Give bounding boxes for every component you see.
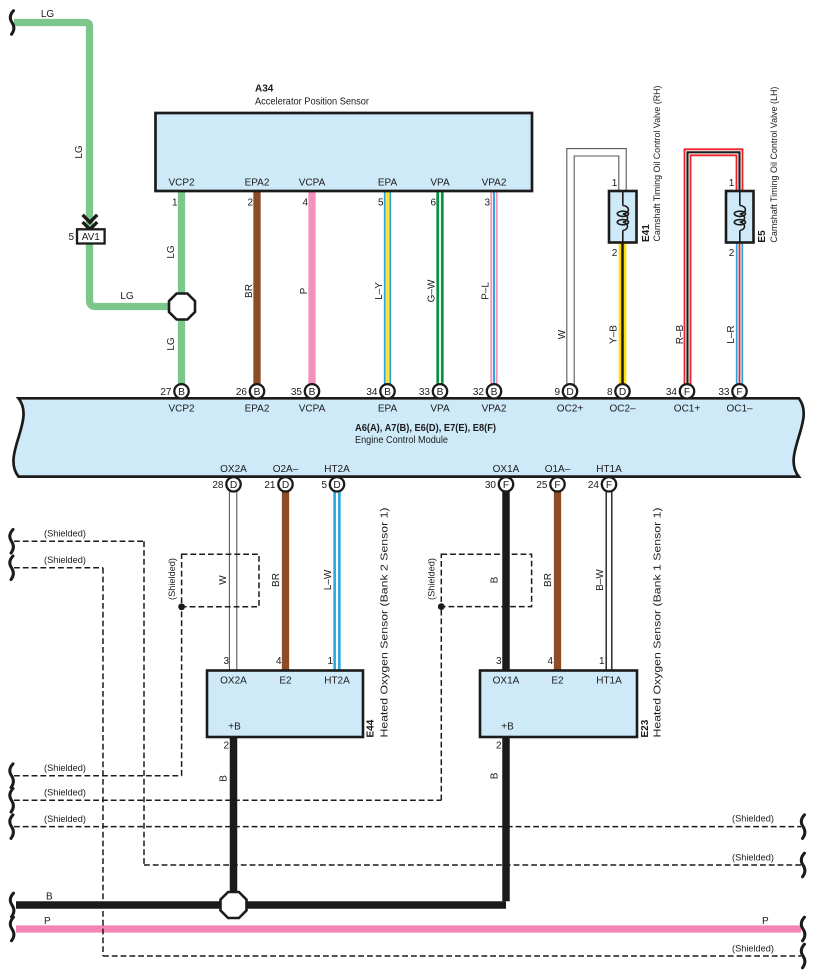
svg-text:L–R: L–R xyxy=(726,325,737,343)
svg-text:B: B xyxy=(254,387,261,398)
svg-text:B: B xyxy=(490,576,501,583)
pin 28 D OX2A ECM xyxy=(226,477,240,491)
svg-text:HT1A: HT1A xyxy=(596,676,622,687)
svg-text:35: 35 xyxy=(291,387,303,398)
svg-text:5: 5 xyxy=(68,232,74,243)
svg-text:VCP2: VCP2 xyxy=(168,178,195,189)
svg-text:1: 1 xyxy=(729,178,735,189)
svg-text:W: W xyxy=(218,575,229,585)
svg-text:E44: E44 xyxy=(366,719,377,737)
wire LG VCP2 from A34 pin 1 to ECM pin 27 through splice xyxy=(178,191,185,398)
svg-text:B: B xyxy=(218,775,229,782)
wire P-L VPA2 from A34 pin 3 to ECM pin 32 xyxy=(490,191,497,398)
component E5 Camshaft Timing Oil Control Valve LH box xyxy=(726,191,754,243)
svg-text:E5: E5 xyxy=(757,230,768,243)
svg-text:25: 25 xyxy=(536,480,548,491)
svg-text:(Shielded): (Shielded) xyxy=(44,529,86,540)
connector AV1 box xyxy=(77,229,105,243)
svg-text:BR: BR xyxy=(543,573,554,587)
splice octagon top (LG junction) xyxy=(169,294,195,320)
svg-text:Heated Oxygen Sensor (Bank 1 S: Heated Oxygen Sensor (Bank 1 Sensor 1) xyxy=(652,508,664,738)
svg-text:1: 1 xyxy=(172,198,178,209)
svg-text:O1A–: O1A– xyxy=(545,464,571,475)
svg-text:2: 2 xyxy=(496,741,502,752)
svg-text:B: B xyxy=(491,387,498,398)
component E44 Heated Oxygen Sensor Bank 2 Sensor 1 box xyxy=(207,671,363,738)
svg-text:F: F xyxy=(503,480,509,491)
pin 35 B VCPA ECM xyxy=(305,384,319,398)
svg-text:P: P xyxy=(762,916,769,927)
svg-text:1: 1 xyxy=(327,656,333,667)
splice octagon bottom (B ground junction) xyxy=(221,892,247,918)
svg-text:LG: LG xyxy=(120,291,134,302)
svg-text:27: 27 xyxy=(160,387,172,398)
svg-text:2: 2 xyxy=(729,248,735,259)
component E41 Camshaft Timing Oil Control Valve RH box xyxy=(609,191,637,243)
svg-text:B: B xyxy=(490,772,501,779)
svg-text:D: D xyxy=(282,480,289,491)
wire break squiggle P wire right xyxy=(801,917,805,941)
svg-text:F: F xyxy=(606,480,612,491)
wire P horizontal at bottom xyxy=(16,925,801,932)
connector chevron (double arrow into AV1) xyxy=(83,215,98,230)
svg-text:34: 34 xyxy=(666,387,678,398)
svg-text:D: D xyxy=(230,480,237,491)
label E44 pin names xyxy=(220,676,350,687)
svg-text:G–W: G–W xyxy=(427,279,438,302)
pin 21 D O2A- ECM xyxy=(278,477,292,491)
label E23 pin names xyxy=(493,676,622,687)
svg-text:A6(A), A7(B), E6(D), E7(E), E8: A6(A), A7(B), E6(D), E7(E), E8(F) xyxy=(355,423,496,434)
svg-text:6: 6 xyxy=(430,198,436,209)
wire break squiggle P wire left xyxy=(10,917,14,941)
svg-text:9: 9 xyxy=(554,387,560,398)
pin 26 B EPA2 ECM xyxy=(250,384,264,398)
wire B from E23 +B pin 2 down to ground bus xyxy=(502,737,510,901)
svg-text:BR: BR xyxy=(271,573,282,587)
svg-text:+B: +B xyxy=(228,722,241,733)
wire W from E41 pin 1 to ECM pin 9 OC2+ (white wire drawn as double outline) xyxy=(567,149,626,398)
svg-text:4: 4 xyxy=(547,656,553,667)
svg-text:2: 2 xyxy=(223,741,229,752)
coil symbol inside E41 xyxy=(617,191,628,243)
wire BR EPA2 from A34 pin 2 to ECM pin 26 xyxy=(253,191,260,398)
svg-text:F: F xyxy=(684,387,690,398)
wire BR O1A- from ECM pin 25 to E23 pin 4 xyxy=(554,477,561,671)
svg-text:Accelerator Position Sensor: Accelerator Position Sensor xyxy=(255,97,370,108)
wire Y-B from E41 pin 2 to ECM pin 8 OC2- xyxy=(619,242,627,398)
pin 24 F HT1A ECM xyxy=(602,477,616,491)
svg-text:HT1A: HT1A xyxy=(596,464,622,475)
wire B-W HT1A from ECM pin 24 to E23 pin 1 xyxy=(606,477,613,671)
pin 34 B EPA ECM xyxy=(380,384,394,398)
wire OX2A W (white wire, double outline) from ECM pin 28 to E44 pin 3 xyxy=(229,477,236,671)
pin 33 B VPA ECM xyxy=(433,384,447,398)
svg-text:D: D xyxy=(333,480,340,491)
pin 8 D OC2- ECM xyxy=(615,384,629,398)
wire L-R from E5 pin 2 to ECM pin 33 OC1- xyxy=(736,242,743,398)
label ECM bottom pin numbers xyxy=(212,480,599,491)
pin 25 F O1A- ECM xyxy=(550,477,564,491)
svg-text:OX1A: OX1A xyxy=(493,676,520,687)
pin 32 B VPA2 ECM xyxy=(487,384,501,398)
wire break squiggle shielded line 5 left xyxy=(10,815,14,839)
wire break squiggle shielded line 3 left xyxy=(10,764,14,788)
svg-text:Camshaft Timing Oil Control Va: Camshaft Timing Oil Control Valve (RH) xyxy=(652,85,662,241)
svg-text:P–L: P–L xyxy=(481,282,492,300)
wire BR O2A- from ECM pin 21 to E44 pin 4 xyxy=(282,477,289,671)
svg-text:B: B xyxy=(178,387,185,398)
svg-text:2: 2 xyxy=(612,248,618,259)
pin 34 F OC1+ ECM xyxy=(680,384,694,398)
wire break squiggle B bus left xyxy=(10,893,14,917)
wire break squiggle shielded line 1 right xyxy=(801,853,805,877)
svg-text:BR: BR xyxy=(244,284,255,298)
svg-text:VPA: VPA xyxy=(430,178,450,189)
pin 9 D OC2+ ECM xyxy=(563,384,577,398)
wire break squiggle shielded line 2 left xyxy=(10,556,14,580)
shield dashed line 3 left (Shielded) up to left shield box dot xyxy=(14,607,182,776)
svg-text:A34: A34 xyxy=(255,84,274,95)
svg-text:AV1: AV1 xyxy=(82,232,101,243)
label ECM top pin names xyxy=(168,404,753,415)
shield dashed box around W wire of E44 xyxy=(182,554,259,607)
svg-text:8: 8 xyxy=(607,387,613,398)
wire R-B from E5 pin 1 to ECM pin 34 OC1+ xyxy=(688,152,740,398)
svg-text:E2: E2 xyxy=(279,676,292,687)
svg-text:(Shielded): (Shielded) xyxy=(732,814,774,825)
svg-text:OX2A: OX2A xyxy=(220,676,247,687)
svg-text:EPA: EPA xyxy=(378,178,398,189)
svg-text:LG: LG xyxy=(41,9,55,20)
wire L-W HT2A from ECM pin 5 to E44 pin 1 xyxy=(333,477,340,671)
label A34 pin numbers xyxy=(172,198,491,209)
label ECM bottom pin names xyxy=(220,464,622,475)
svg-text:B: B xyxy=(384,387,391,398)
svg-text:(Shielded): (Shielded) xyxy=(732,853,774,864)
pin 33 F OC1- ECM xyxy=(732,384,746,398)
svg-text:D: D xyxy=(566,387,573,398)
wire L-Y EPA from A34 pin 5 to ECM pin 34 xyxy=(384,191,391,398)
component ECM band A6 A7 E6 E7 E8 xyxy=(13,398,803,476)
svg-text:(Shielded): (Shielded) xyxy=(44,788,86,799)
svg-text:Y–B: Y–B xyxy=(609,325,620,344)
svg-text:P: P xyxy=(299,287,310,294)
svg-text:33: 33 xyxy=(419,387,431,398)
svg-text:32: 32 xyxy=(473,387,485,398)
wire B OX1A from ECM pin 30 to E23 pin 3 xyxy=(502,477,510,671)
wire break squiggle shielded line 1 left xyxy=(10,530,14,554)
svg-text:VCPA: VCPA xyxy=(299,404,326,415)
svg-text:1: 1 xyxy=(612,178,618,189)
svg-text:E41: E41 xyxy=(641,224,652,242)
svg-text:R–B: R–B xyxy=(675,324,686,344)
svg-text:O2A–: O2A– xyxy=(273,464,299,475)
svg-text:LG: LG xyxy=(166,245,177,259)
svg-text:EPA2: EPA2 xyxy=(245,404,270,415)
svg-text:Heated Oxygen Sensor (Bank 2 S: Heated Oxygen Sensor (Bank 2 Sensor 1) xyxy=(379,508,391,738)
shield dashed line 1 left (Shielded) to x144 down to y865 across to right xyxy=(14,541,801,865)
wire LG from AV1 connector down and right to splice octagon xyxy=(90,244,183,307)
svg-text:F: F xyxy=(736,387,742,398)
svg-text:HT2A: HT2A xyxy=(324,676,350,687)
svg-text:D: D xyxy=(619,387,626,398)
wire P VCPA from A34 pin 4 to ECM pin 35 xyxy=(308,191,315,398)
svg-text:5: 5 xyxy=(321,480,327,491)
svg-text:F: F xyxy=(554,480,560,491)
svg-text:26: 26 xyxy=(236,387,248,398)
junction dot at left shield box corner xyxy=(178,603,185,610)
label A34 pin names xyxy=(168,178,506,189)
svg-text:VPA: VPA xyxy=(430,404,450,415)
svg-text:(Shielded): (Shielded) xyxy=(44,555,86,566)
wire LG horizontal top-left xyxy=(14,23,90,230)
svg-text:1: 1 xyxy=(599,656,605,667)
component E23 Heated Oxygen Sensor Bank 1 Sensor 1 box xyxy=(480,671,637,738)
svg-text:L–Y: L–Y xyxy=(374,282,385,300)
svg-text:24: 24 xyxy=(588,480,600,491)
svg-text:(Shielded): (Shielded) xyxy=(44,763,86,774)
pin 5 D HT2A ECM xyxy=(330,477,344,491)
svg-text:HT2A: HT2A xyxy=(324,464,350,475)
svg-text:4: 4 xyxy=(276,656,282,667)
label E23 pin numbers xyxy=(496,656,605,667)
shield dashed line 2 left (Shielded) to x103 down to y956 across to right xyxy=(14,568,801,956)
wire B from E44 +B pin 2 down to bottom splice octagon xyxy=(230,737,238,905)
wire break squiggle shielded line 4 left xyxy=(10,789,14,813)
svg-text:LG: LG xyxy=(166,337,177,351)
svg-text:3: 3 xyxy=(223,656,229,667)
svg-text:B–W: B–W xyxy=(595,569,606,591)
svg-text:3: 3 xyxy=(496,656,502,667)
svg-text:VCPA: VCPA xyxy=(299,178,326,189)
svg-text:P: P xyxy=(44,916,51,927)
svg-text:4: 4 xyxy=(302,198,308,209)
svg-text:5: 5 xyxy=(378,198,384,209)
svg-text:33: 33 xyxy=(718,387,730,398)
svg-text:EPA2: EPA2 xyxy=(245,178,270,189)
wire break squiggle shielded line 2 right xyxy=(801,944,805,968)
wire break squiggle shielded line 5 right xyxy=(801,815,805,839)
svg-text:VPA2: VPA2 xyxy=(482,178,507,189)
svg-text:E2: E2 xyxy=(551,676,564,687)
svg-text:Engine Control Module: Engine Control Module xyxy=(355,435,448,446)
shield dashed box around B wire of E23 xyxy=(441,554,531,606)
svg-text:(Shielded): (Shielded) xyxy=(427,558,438,600)
wire break squiggle LG top left xyxy=(10,11,14,35)
junction dot at right shield box corner xyxy=(438,603,445,610)
svg-text:B: B xyxy=(46,892,53,903)
wire G-W VPA from A34 pin 6 to ECM pin 33 xyxy=(436,191,443,398)
svg-text:(Shielded): (Shielded) xyxy=(732,944,774,955)
wire B ground bus horizontal at bottom xyxy=(16,901,506,909)
svg-text:L–W: L–W xyxy=(323,569,334,590)
pin 27 B VCP2 ECM xyxy=(174,384,188,398)
label ECM top pin numbers xyxy=(160,387,730,398)
svg-text:21: 21 xyxy=(264,480,276,491)
coil symbol inside E5 xyxy=(734,191,745,243)
svg-text:EPA: EPA xyxy=(378,404,398,415)
svg-text:VPA2: VPA2 xyxy=(482,404,507,415)
svg-text:+B: +B xyxy=(501,722,514,733)
svg-text:VCP2: VCP2 xyxy=(168,404,195,415)
svg-text:OC1+: OC1+ xyxy=(674,404,701,415)
svg-text:34: 34 xyxy=(366,387,378,398)
svg-text:2: 2 xyxy=(247,198,253,209)
svg-text:OX2A: OX2A xyxy=(220,464,247,475)
svg-text:E23: E23 xyxy=(640,719,651,737)
svg-text:30: 30 xyxy=(485,480,497,491)
svg-text:3: 3 xyxy=(484,198,490,209)
svg-text:LG: LG xyxy=(74,145,85,159)
svg-text:OC2+: OC2+ xyxy=(557,404,584,415)
svg-text:B: B xyxy=(309,387,316,398)
shield dashed line 5 full width (Shielded) both ends xyxy=(14,826,801,828)
svg-text:OC1–: OC1– xyxy=(726,404,753,415)
svg-text:B: B xyxy=(437,387,444,398)
svg-text:Camshaft Timing Oil Control Va: Camshaft Timing Oil Control Valve (LH) xyxy=(769,87,779,243)
svg-text:28: 28 xyxy=(212,480,224,491)
svg-text:OC2–: OC2– xyxy=(609,404,636,415)
svg-text:OX1A: OX1A xyxy=(493,464,520,475)
shield dashed line 4 left (Shielded) to x441 up to right shield box dot xyxy=(14,607,441,801)
component A34 Accelerator Position Sensor box xyxy=(156,113,533,191)
svg-text:(Shielded): (Shielded) xyxy=(44,814,86,825)
pin 30 F OX1A ECM xyxy=(499,477,513,491)
svg-text:(Shielded): (Shielded) xyxy=(167,558,178,600)
label E44 pin numbers xyxy=(223,656,333,667)
svg-text:W: W xyxy=(557,329,568,339)
